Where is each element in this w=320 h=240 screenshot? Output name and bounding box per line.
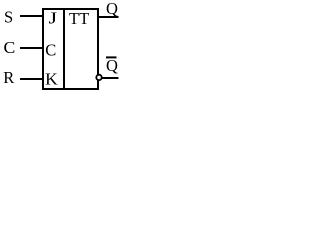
svg-text:S: S — [4, 7, 13, 26]
svg-text:Q: Q — [106, 0, 118, 18]
svg-text:Q: Q — [106, 56, 118, 75]
svg-text:K: K — [45, 70, 58, 89]
svg-text:C: C — [4, 38, 16, 57]
svg-text:J: J — [49, 9, 58, 28]
svg-text:C: C — [45, 41, 56, 60]
svg-text:R: R — [3, 68, 14, 87]
svg-text:TT: TT — [69, 9, 89, 28]
